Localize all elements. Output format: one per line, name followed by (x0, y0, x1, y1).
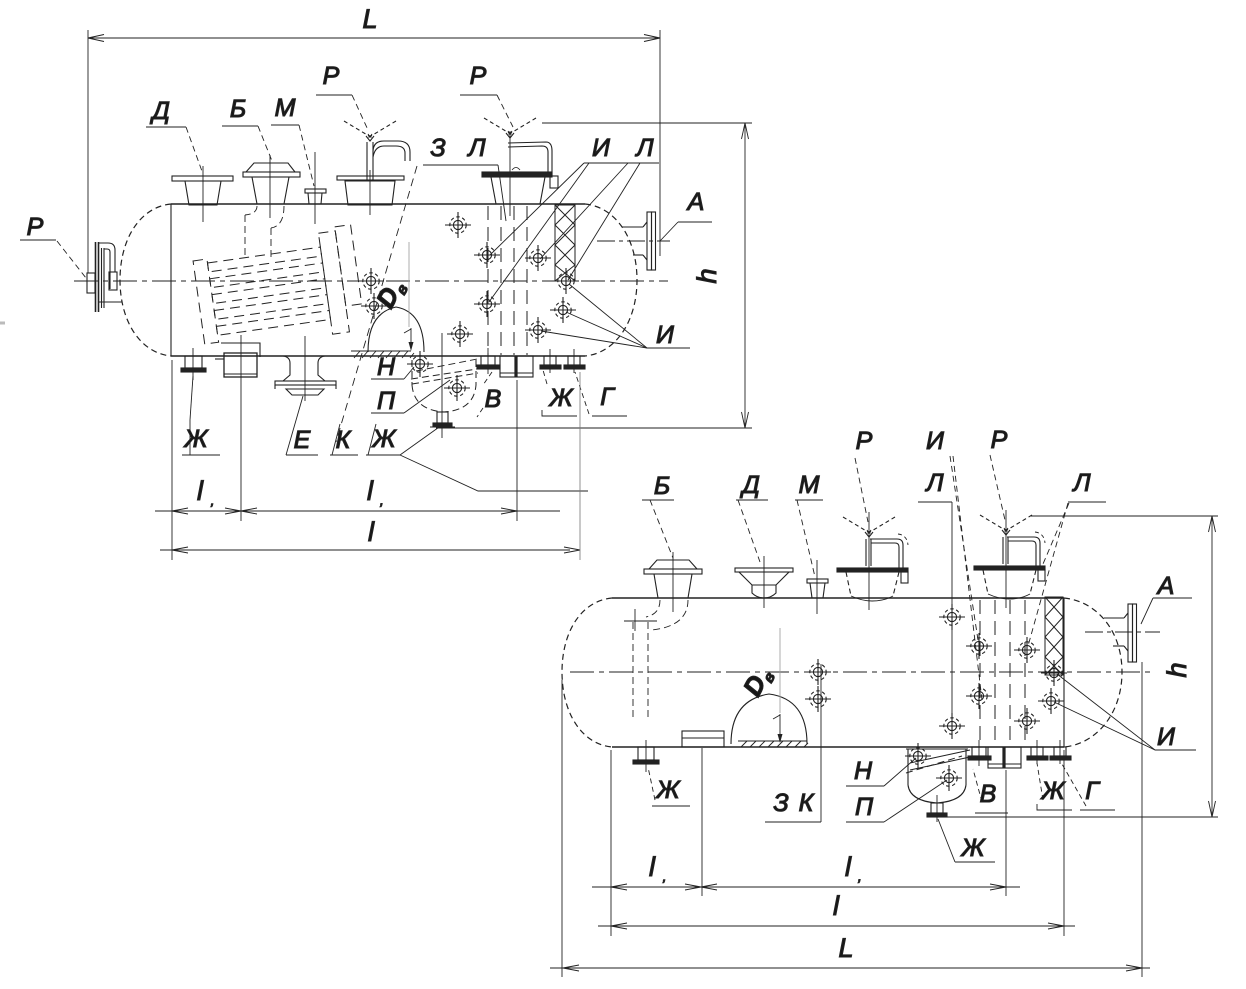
bottom labels row (v1): Zh E K Zh (182, 376, 588, 491)
svg-text:Р: Р (27, 213, 44, 241)
dip pipe of nozzle B (v2) (633, 600, 688, 718)
label B leader (v2) (642, 500, 674, 558)
spray symbol R2 (v2) (980, 515, 1032, 535)
bottom outlet box V (v1) (500, 356, 533, 377)
svg-text:Р: Р (856, 427, 873, 455)
svg-text:Dв: Dв (737, 662, 779, 702)
svg-text:И: И (656, 321, 674, 349)
svg-text:Л: Л (924, 469, 944, 497)
label D leader (146, 127, 203, 174)
svg-text:Л: Л (1071, 469, 1091, 497)
labels N P (v1) (371, 367, 450, 413)
labels V Zh G (v2) (973, 763, 1115, 813)
label L right (v2) with leaders (1028, 502, 1106, 646)
label R leader (v2) (855, 458, 868, 522)
bottom nozzle G (v1) (564, 349, 585, 373)
mesh pad block (v2, crosshatched) (1045, 597, 1063, 675)
svg-text:l: l (833, 891, 840, 921)
svg-text:Г: Г (1085, 777, 1101, 805)
labels Z and L row (v1) (336, 165, 506, 442)
scan artifact left edge (0, 322, 5, 325)
label L mid (v2) with leader (918, 502, 952, 726)
svg-text:А: А (1156, 572, 1175, 600)
label R left leader (20, 240, 86, 278)
svg-text:h: h (692, 268, 722, 283)
bolts (v2) (805, 659, 831, 685)
sump box E (v1) (215, 343, 260, 377)
nozzle M (v1 top 3) (305, 152, 326, 224)
svg-text:В: В (485, 385, 502, 413)
svg-text:,: , (858, 869, 862, 884)
svg-text:Л: Л (466, 134, 486, 162)
label M leader (271, 125, 314, 186)
svg-text:h: h (1162, 662, 1192, 677)
bottom outlet box V (v2) (988, 747, 1021, 768)
nozzle B (v2 top 1) (644, 552, 702, 612)
dimension l (v2) (598, 750, 1075, 936)
labels V Zh G (v1) with leaders (477, 370, 627, 417)
tube bundle (v1, inclined, dashed) (191, 225, 365, 352)
bottom nozzle N-stub (v2) (968, 740, 991, 766)
nozzle L gooseneck (v1 top 5) (482, 131, 558, 216)
svg-text:Е: Е (294, 426, 311, 454)
svg-text:‚: ‚ (210, 493, 214, 508)
nozzle A (v2 right) (1104, 604, 1137, 662)
support box (v2) (682, 731, 724, 747)
nozzle A (v1 right) (622, 212, 656, 270)
svg-text:М: М (799, 471, 820, 499)
svg-text:Р: Р (323, 62, 340, 90)
svg-text:l: l (367, 476, 374, 506)
mesh pad block (v1, crosshatched) (555, 205, 575, 281)
bottom nozzle Zh1 (v2) (633, 740, 659, 772)
svg-text:П: П (855, 793, 874, 821)
svg-text:И: И (1157, 723, 1175, 751)
labels N P (v2) (846, 758, 947, 822)
svg-text:В: В (980, 780, 997, 808)
spray symbol R2 (v1) (484, 118, 536, 138)
svg-text:Ж: Ж (371, 425, 398, 453)
svg-text:К: К (799, 789, 815, 817)
svg-text:Ж: Ж (960, 834, 987, 862)
label I right (v2) with leaders (1054, 674, 1196, 750)
nozzle R left (v1) (87, 242, 122, 312)
dip pipe of nozzle B (dashed, inside v1) (245, 206, 284, 258)
svg-text:Г: Г (600, 383, 616, 411)
svg-text:И: И (592, 134, 610, 162)
svg-text:Р: Р (991, 426, 1008, 454)
svg-text:З: З (773, 789, 788, 817)
label Zh left (v2) (648, 767, 690, 806)
svg-text:Б: Б (230, 95, 246, 123)
svg-text:П: П (377, 387, 396, 415)
dimension l (v1) (160, 372, 580, 560)
centerline vessel 2 (570, 671, 1150, 673)
baffle plates (v1, dashed verticals) (488, 206, 527, 355)
svg-text:,: , (380, 493, 384, 508)
labels Z K (v2) (765, 664, 821, 822)
dimension row l2 l1 (v2) (592, 748, 1020, 936)
axis of nozzle A (v2) (1085, 631, 1160, 633)
svg-text:Р: Р (470, 62, 487, 90)
slanted drain pipe (v2) (906, 750, 970, 773)
svg-text:Л: Л (634, 134, 654, 162)
nozzle D (v1 top 1) (172, 166, 233, 222)
svg-text:И: И (926, 427, 944, 455)
svg-text:L: L (838, 933, 853, 963)
label R2 leader (v2) (990, 455, 1005, 520)
vessel 2 shell (562, 598, 1122, 747)
bottom nozzle Zh2 (v2) (1027, 740, 1048, 764)
nozzle M (v2 top 3) (807, 560, 828, 614)
svg-text:Ж: Ж (655, 776, 682, 804)
centerline vessel 1 (74, 280, 668, 282)
bottom nozzle E (v1) (275, 336, 336, 401)
bolts (v1) (445, 212, 471, 238)
nozzle D (v2 top 2) (735, 556, 793, 608)
bottom nozzle N-stub (v1) (477, 348, 500, 374)
svg-text:Б: Б (654, 472, 670, 500)
svg-text:Н: Н (854, 757, 873, 785)
axis of nozzle A (v1) (597, 240, 670, 242)
vessel 1 shell (120, 204, 637, 356)
svg-text:Д: Д (739, 471, 760, 499)
svg-text:Ж: Ж (183, 425, 210, 453)
nozzle R spray (v2 top 4) (837, 512, 908, 610)
labels I and L2 row (v1) with leaders (489, 163, 659, 302)
label D leader (v2) (736, 500, 768, 562)
svg-text:Ж: Ж (1040, 777, 1067, 805)
svg-text:l: l (197, 476, 204, 506)
svg-text:З: З (430, 134, 445, 162)
label R leader (v1 top) (316, 95, 368, 130)
floor hatch strip (v1) (351, 351, 414, 358)
bottom nozzle G (v2) (1050, 740, 1071, 764)
dimension L (v2) (550, 662, 1150, 977)
svg-text:l: l (368, 517, 375, 547)
bottom nozzle Zh1 (v1) (181, 348, 206, 380)
svg-text:L: L (362, 4, 377, 34)
svg-text:А: А (686, 188, 705, 216)
svg-text:М: М (275, 94, 296, 122)
svg-text:Н: Н (377, 353, 396, 381)
floor hatch strip (v2) (738, 741, 808, 747)
label A leader (v1) (660, 222, 712, 241)
label R2 leader (v1 top) (460, 95, 513, 127)
dimension L (top) (88, 30, 660, 273)
weir dome Dv (v2) (731, 628, 807, 744)
baffle plates (v2, dashed verticals) (980, 600, 1025, 746)
bottom nozzle Zh2 (v1) (540, 349, 561, 373)
dimension row l2 l1 (v1) (155, 335, 560, 560)
label M leader (v2) (795, 500, 823, 577)
label A leader (v2) (1141, 598, 1192, 624)
label I top (v2) with leaders (950, 456, 982, 700)
label I right (v1) with leaders (541, 284, 690, 348)
condensate pot P (v2) (906, 749, 968, 822)
slanted drain pipe (v1, hidden) (411, 359, 478, 384)
svg-text:l: l (649, 852, 656, 882)
labels Z K leader row (v2) / dimension h (927, 516, 1218, 817)
label B leader (222, 126, 272, 161)
nozzle L gooseneck (v2 top 5) (974, 510, 1045, 608)
svg-text:l: l (845, 852, 852, 882)
weir dome Dv (v1) (368, 242, 424, 352)
nozzle B (v1 top 2) (243, 155, 300, 218)
spray symbol R (v2) (843, 517, 895, 537)
svg-text:К: К (336, 426, 352, 454)
svg-text:Д: Д (149, 97, 170, 125)
spray symbol R (v1) (344, 121, 396, 141)
svg-text:‚: ‚ (662, 869, 666, 884)
dimension h (v1) (436, 123, 752, 428)
nozzle R spray (v1 top 4) (337, 141, 410, 215)
svg-text:Dв: Dв (370, 274, 412, 314)
svg-text:Ж: Ж (548, 384, 575, 412)
condensate pot P (v1) (412, 360, 476, 412)
label Zh drain (v2) (938, 819, 995, 862)
